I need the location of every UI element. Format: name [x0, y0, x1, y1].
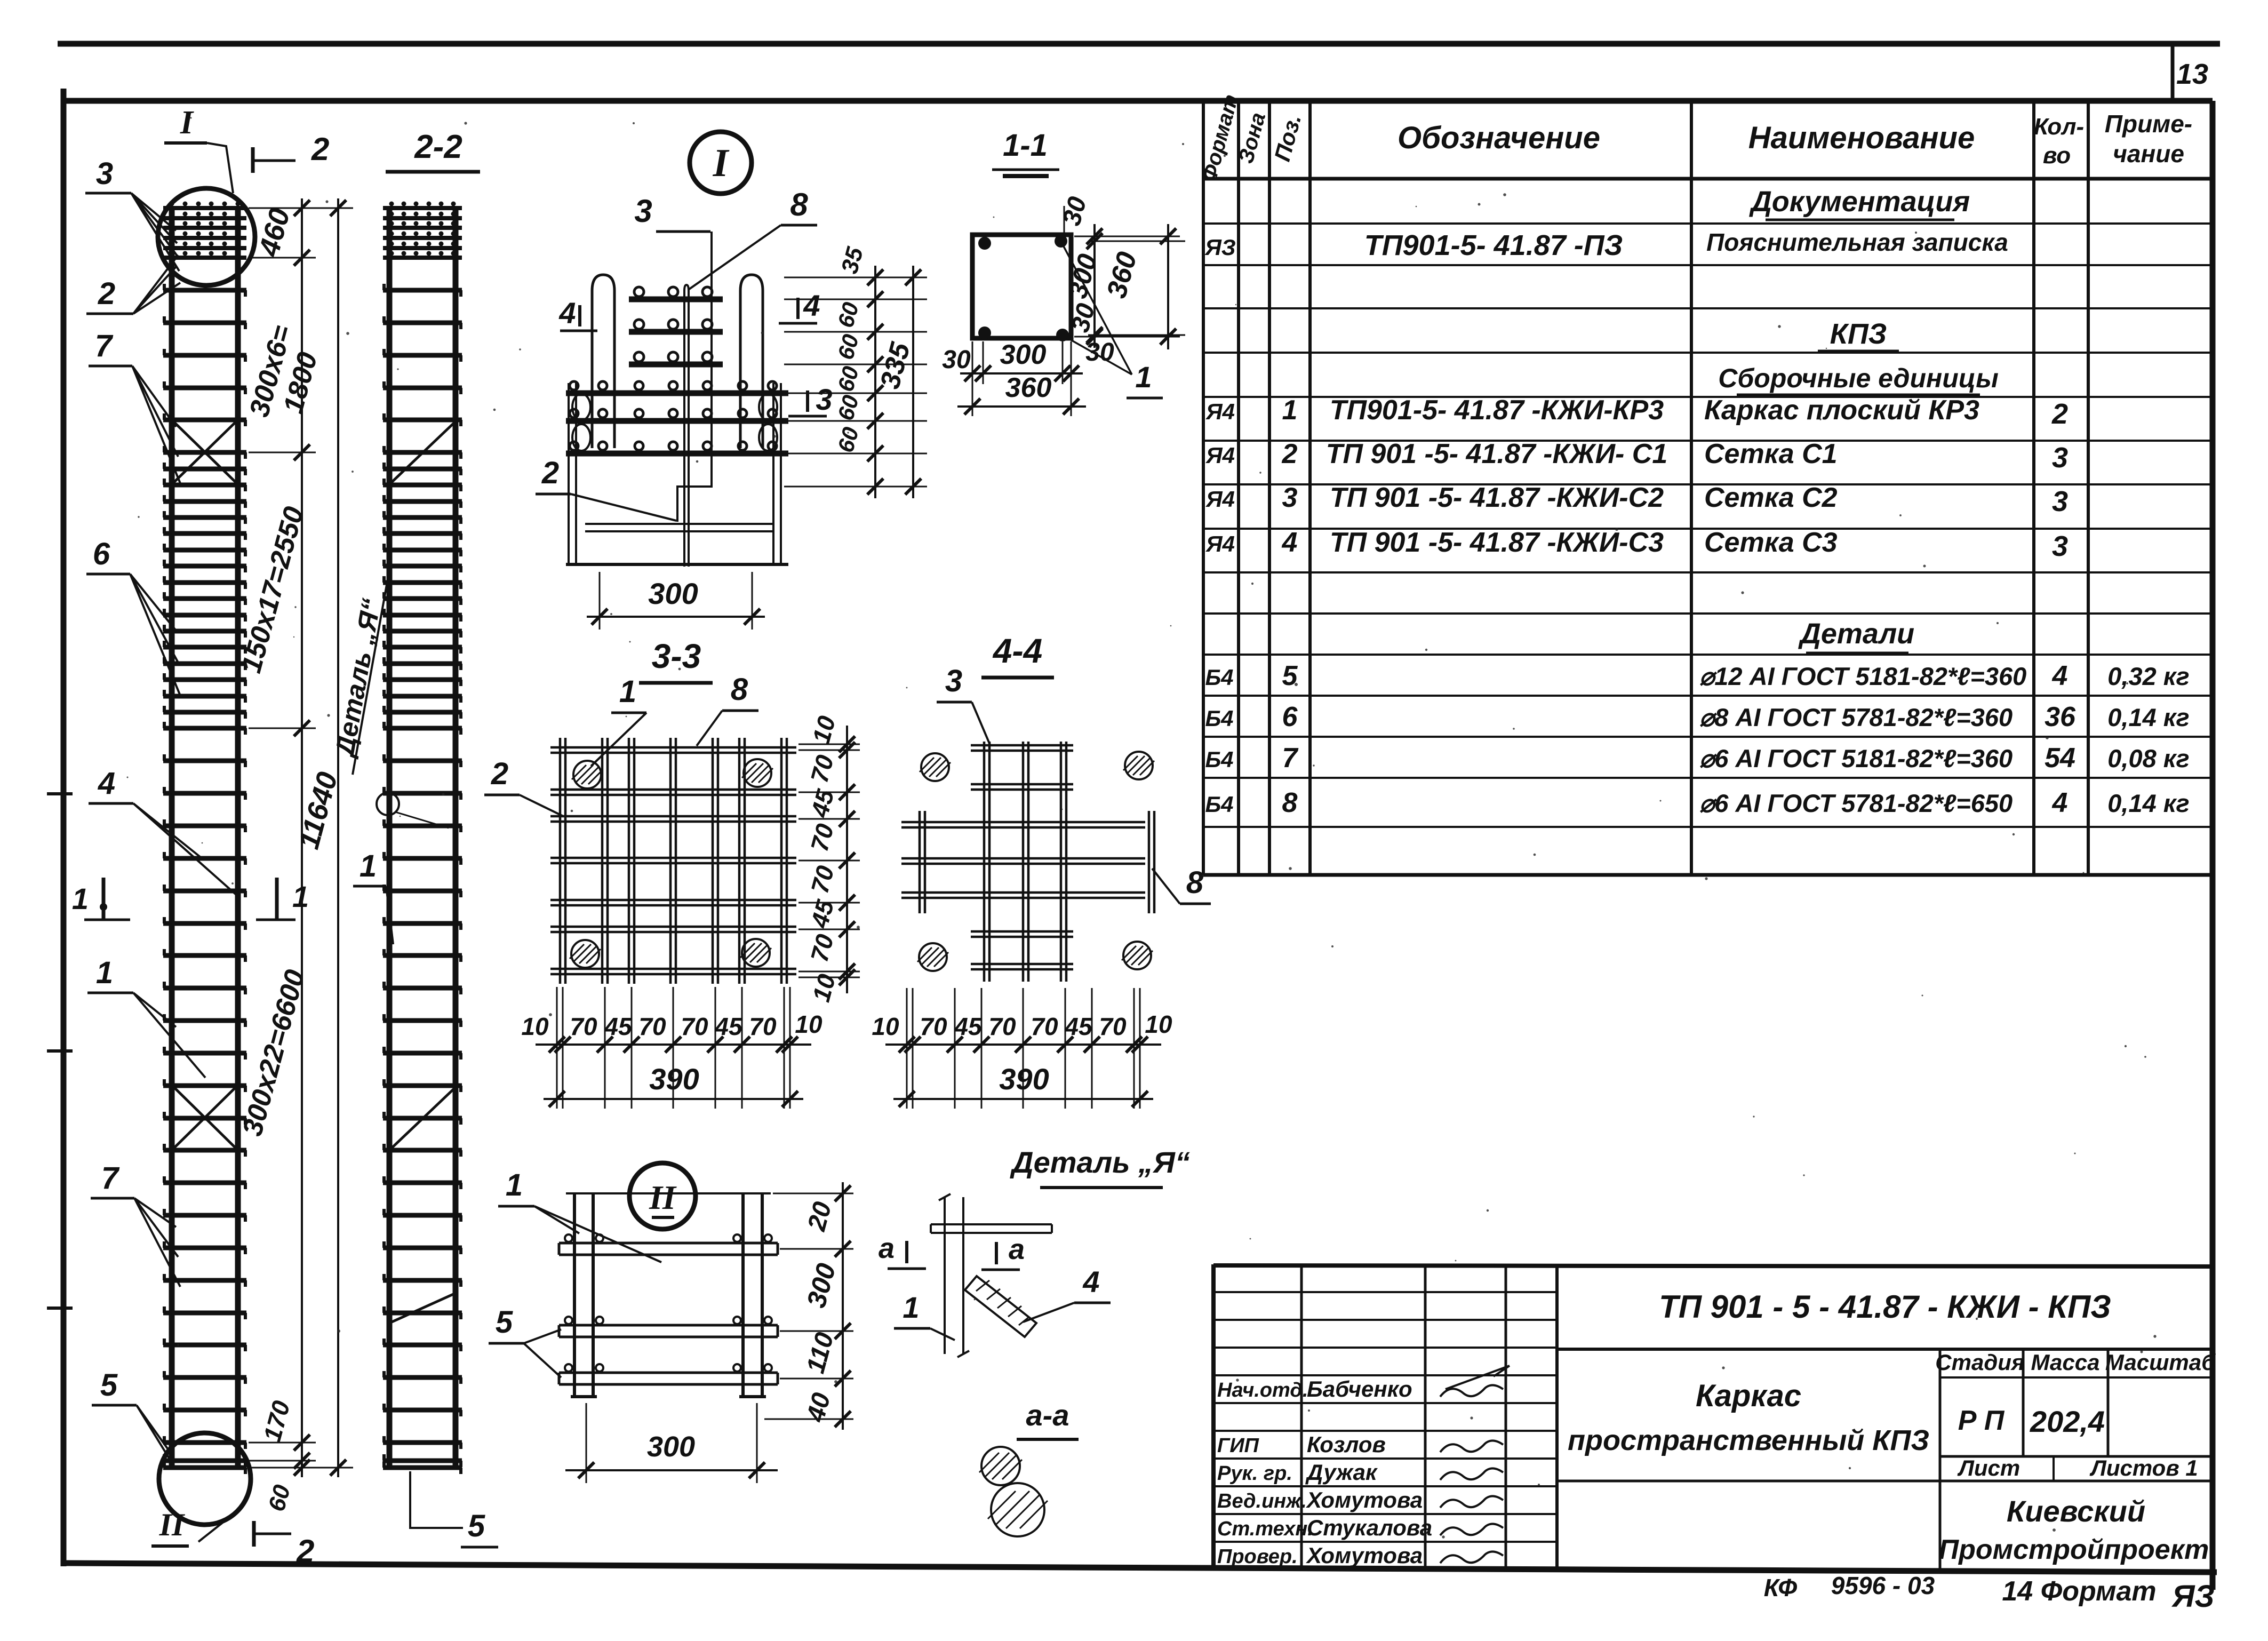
svg-text:2: 2: [541, 456, 559, 490]
svg-text:5: 5: [468, 1509, 485, 1543]
svg-text:во: во: [2043, 142, 2071, 169]
section mark 2 top: [251, 147, 255, 173]
svg-text:5: 5: [100, 1368, 118, 1403]
svg-text:Вед.инж.: Вед.инж.: [1217, 1490, 1307, 1512]
sheet top rule: [58, 41, 2220, 47]
detail I circle title: [690, 132, 752, 194]
svg-text:45: 45: [954, 1013, 983, 1040]
svg-text:300: 300: [1000, 339, 1047, 370]
svg-text:7: 7: [95, 329, 114, 363]
svg-text:14 Формат: 14 Формат: [2002, 1576, 2156, 1607]
view 3-3 grid vertical bars: [560, 738, 787, 984]
svg-text:70: 70: [681, 1013, 708, 1040]
svg-text:Б4: Б4: [1205, 706, 1233, 731]
svg-text:4: 4: [558, 296, 576, 330]
view 1-1 square: [972, 235, 1071, 338]
cage KP3 front view rails: [169, 206, 175, 1470]
view 3-3 corner bar sections (hatched): [573, 761, 601, 788]
svg-text:7: 7: [101, 1161, 120, 1196]
svg-text:II: II: [649, 1178, 677, 1216]
cage KP3 front view dense mesh zone (460): [163, 208, 246, 258]
label 5 under cage 2: [410, 1471, 463, 1528]
svg-text:Б4: Б4: [1205, 665, 1233, 690]
svg-text:4: 4: [98, 766, 115, 801]
svg-text:30: 30: [1085, 338, 1114, 367]
svg-text:а: а: [879, 1232, 895, 1264]
svg-text:Козлов: Козлов: [1307, 1432, 1386, 1457]
svg-text:45: 45: [1064, 1013, 1093, 1040]
svg-text:а: а: [1009, 1233, 1025, 1265]
svg-text:Бабченко: Бабченко: [1307, 1376, 1412, 1401]
svg-text:Приме-: Приме-: [2105, 110, 2192, 138]
svg-text:2: 2: [296, 1533, 314, 1569]
svg-text:Я4: Я4: [1205, 487, 1235, 512]
svg-text:8: 8: [1186, 865, 1204, 900]
svg-text:70: 70: [749, 1013, 777, 1040]
svg-text:Сетка С2: Сетка С2: [1704, 482, 1838, 513]
title block left table verticals: [1301, 1265, 1557, 1567]
detail I: 300 dim bottom: [599, 572, 601, 630]
svg-text:2: 2: [2051, 398, 2068, 430]
cage section 2-2 rungs: [383, 290, 462, 1468]
svg-text:Каркас плоский КР3: Каркас плоский КР3: [1704, 395, 1979, 426]
section a-a bar circles: [981, 1447, 1020, 1485]
view 3-3 bottom dims: [557, 987, 790, 1109]
svg-text:1: 1: [619, 674, 636, 709]
svg-text:3: 3: [1282, 482, 1298, 513]
svg-text:Каркас: Каркас: [1696, 1379, 1801, 1413]
svg-text:Я4: Я4: [1205, 399, 1235, 424]
svg-text:Наименование: Наименование: [1748, 121, 1975, 155]
svg-text:а-а: а-а: [1026, 1398, 1069, 1432]
svg-text:Я4: Я4: [1205, 443, 1235, 468]
svg-text:Хомутова: Хомутова: [1306, 1487, 1423, 1512]
svg-text:1: 1: [360, 849, 377, 883]
svg-text:70: 70: [920, 1013, 947, 1040]
view 1-1 label 1 leaders: [1063, 244, 1132, 375]
svg-text:пространственный КПЗ: пространственный КПЗ: [1568, 1424, 1929, 1456]
cage 2 diagonal braces: [389, 421, 456, 484]
view 1-1 right dims: [1064, 206, 1185, 337]
svg-text:Лист: Лист: [1957, 1455, 2020, 1480]
svg-text:5: 5: [1282, 660, 1298, 691]
svg-text:54: 54: [2045, 743, 2075, 774]
svg-text:КПЗ: КПЗ: [1830, 318, 1887, 350]
svg-text:0,14 кг: 0,14 кг: [2107, 789, 2189, 817]
svg-text:2-2: 2-2: [414, 129, 462, 165]
view 3-3 right dims: [798, 744, 860, 977]
svg-text:Деталь „Я“: Деталь „Я“: [1010, 1145, 1190, 1179]
detail Ya diagonal bar 4 (hatched): [965, 1276, 1036, 1337]
detail I: outer vertical bars: [568, 383, 570, 564]
cage overall dim chain 11640: [337, 198, 339, 1477]
svg-text:0,32 кг: 0,32 кг: [2107, 662, 2189, 690]
svg-text:ТП 901 -5- 41.87 -КЖИ-С2: ТП 901 -5- 41.87 -КЖИ-С2: [1330, 482, 1664, 513]
svg-text:390: 390: [999, 1062, 1049, 1096]
detail circle II title: [629, 1163, 696, 1229]
svg-text:4-4: 4-4: [992, 632, 1043, 670]
svg-text:ТП 901 - 5 - 41.87 - КЖИ - КПЗ: ТП 901 - 5 - 41.87 - КЖИ - КПЗ: [1659, 1289, 2111, 1325]
svg-text:Обозначение: Обозначение: [1397, 121, 1600, 155]
svg-text:Листов 1: Листов 1: [2089, 1455, 2198, 1480]
view 4-4 corner bar sections (hatched): [921, 753, 949, 781]
svg-text:Стадия: Стадия: [1935, 1350, 2024, 1375]
detail I: right dim chain: [784, 277, 927, 487]
detail I: upper mesh bars: [629, 297, 723, 302]
svg-text:45: 45: [714, 1013, 743, 1040]
svg-text:202,4: 202,4: [2030, 1405, 2105, 1438]
svg-text:Ст.техн.: Ст.техн.: [1217, 1518, 1313, 1540]
svg-text:Стукалова: Стукалова: [1307, 1515, 1432, 1540]
svg-text:3: 3: [2052, 442, 2068, 474]
svg-text:ЯЗ: ЯЗ: [1204, 235, 1236, 260]
svg-text:36: 36: [2045, 702, 2076, 732]
svg-text:7: 7: [1282, 743, 1299, 774]
svg-text:5: 5: [496, 1305, 513, 1340]
svg-text:2: 2: [311, 131, 329, 167]
cage 1 cross braces: [172, 420, 238, 484]
svg-text:13: 13: [2176, 58, 2208, 90]
svg-text:Рук. гр.: Рук. гр.: [1217, 1462, 1292, 1485]
svg-text:2: 2: [98, 276, 115, 311]
detail I: left hook bar: [592, 275, 614, 448]
svg-text:I: I: [713, 141, 730, 185]
svg-text:4: 4: [2052, 787, 2068, 818]
svg-text:Промстройпроект: Промстройпроект: [1939, 1534, 2209, 1565]
cage KP3 front view rungs: [163, 290, 246, 1468]
view II horizontal bars: [559, 1242, 778, 1245]
svg-text:3: 3: [816, 383, 832, 416]
section mark 1 left: [102, 878, 106, 920]
svg-text:4: 4: [1082, 1265, 1099, 1299]
svg-text:1: 1: [96, 955, 113, 990]
svg-text:ТП901-5- 41.87 -КЖИ-КР3: ТП901-5- 41.87 -КЖИ-КР3: [1330, 395, 1664, 426]
detail I: hook loops: [572, 394, 590, 420]
cage section 2-2 rails: [387, 206, 393, 1470]
svg-text:Б4: Б4: [1205, 792, 1233, 817]
section mark 1 right: [275, 878, 279, 920]
detail circle I on cage 1: [158, 188, 255, 285]
svg-text:3: 3: [945, 664, 962, 698]
detail I: lower cage horizontal bars: [566, 391, 788, 396]
svg-text:6: 6: [93, 537, 110, 571]
svg-text:Документация: Документация: [1749, 186, 1970, 218]
svg-text:II: II: [159, 1507, 186, 1542]
page number box 13: [2171, 45, 2175, 103]
svg-text:9596 - 03: 9596 - 03: [1831, 1572, 1935, 1599]
svg-text:10: 10: [872, 1013, 899, 1040]
svg-text:КФ: КФ: [1764, 1574, 1798, 1602]
svg-text:ТП901-5- 41.87 -ПЗ: ТП901-5- 41.87 -ПЗ: [1364, 229, 1623, 261]
svg-text:Масштаб: Масштаб: [2105, 1350, 2216, 1375]
detail Ya horizontal bar: [931, 1224, 1052, 1233]
fold ticks on left frame: [47, 792, 73, 795]
svg-text:чание: чание: [2113, 140, 2184, 168]
drawing frame: [61, 98, 2213, 104]
svg-text:3-3: 3-3: [652, 637, 701, 675]
svg-text:ТП 901 -5- 41.87 -КЖИ- С1: ТП 901 -5- 41.87 -КЖИ- С1: [1326, 439, 1668, 469]
svg-text:0,14 кг: 0,14 кг: [2107, 703, 2189, 731]
svg-text:10: 10: [521, 1013, 549, 1040]
svg-text:390: 390: [649, 1062, 699, 1096]
svg-text:Масса: Масса: [2031, 1350, 2100, 1375]
svg-text:70: 70: [1031, 1013, 1058, 1040]
cage section 2-2 dense mesh zone (460): [383, 208, 462, 258]
svg-text:1: 1: [903, 1291, 919, 1324]
svg-text:Б4: Б4: [1205, 747, 1233, 772]
svg-text:0,08 кг: 0,08 кг: [2107, 744, 2189, 772]
svg-text:45: 45: [604, 1013, 633, 1040]
view 1-1 bottom dims: [972, 341, 1071, 416]
svg-text:1: 1: [1282, 395, 1298, 426]
detail circle II on cage 1: [159, 1433, 251, 1525]
cage dim chain extension lines: [249, 208, 353, 1468]
svg-text:8: 8: [790, 187, 808, 222]
svg-text:360: 360: [1005, 372, 1052, 403]
svg-text:2: 2: [1282, 439, 1298, 469]
title block stadia/massa/masshtab: [1939, 1349, 1942, 1570]
svg-text:ЯЗ: ЯЗ: [2171, 1579, 2215, 1614]
svg-text:Сборочные единицы: Сборочные единицы: [1718, 363, 1999, 393]
svg-text:Сетка С1: Сетка С1: [1704, 439, 1838, 469]
view 4-4 bottom dims: [907, 988, 1140, 1109]
svg-text:3: 3: [2052, 530, 2068, 562]
svg-text:ГИП: ГИП: [1217, 1435, 1259, 1457]
svg-text:1-1: 1-1: [1003, 128, 1048, 163]
svg-text:2: 2: [491, 756, 508, 791]
svg-text:⌀6 АI ГОСТ 5781-82*ℓ=650: ⌀6 АI ГОСТ 5781-82*ℓ=650: [1699, 789, 2013, 817]
detail Ya vertical bar: [939, 1194, 969, 1357]
view II bottom dim 300: [586, 1403, 757, 1483]
specification table grid: [1203, 101, 2088, 875]
svg-text:Р П: Р П: [1958, 1405, 2005, 1436]
scan speckles: [761, 332, 764, 334]
svg-text:Сетка С3: Сетка С3: [1704, 527, 1838, 558]
title block left table rows: [1213, 1292, 1557, 1542]
svg-text:1: 1: [72, 882, 89, 915]
detail I: lower frame lines: [585, 523, 772, 525]
svg-text:6: 6: [1282, 702, 1298, 732]
detail I: center vertical bar 8: [684, 285, 689, 567]
svg-text:4: 4: [803, 289, 820, 322]
svg-text:⌀8 АI ГОСТ 5781-82*ℓ=360: ⌀8 АI ГОСТ 5781-82*ℓ=360: [1699, 703, 2013, 731]
view 3-3 grid horizontal bars: [550, 747, 796, 974]
cage dim chain 460/300x6/150x17/300x22/170/60: [301, 198, 303, 1477]
svg-text:1: 1: [1135, 360, 1152, 394]
svg-text:Я4: Я4: [1205, 531, 1235, 556]
svg-text:70: 70: [1099, 1013, 1127, 1040]
svg-text:Дужак: Дужак: [1305, 1460, 1378, 1485]
svg-text:1: 1: [506, 1168, 523, 1202]
view 4-4 mesh bars: [901, 742, 1154, 982]
svg-text:70: 70: [638, 1013, 666, 1040]
svg-text:8: 8: [731, 672, 748, 707]
svg-text:Кол-: Кол-: [2034, 114, 2084, 140]
svg-text:Нач.отд.: Нач.отд.: [1217, 1379, 1308, 1401]
title block outer: [1211, 1264, 1216, 1568]
svg-text:Пояснительная записка: Пояснительная записка: [1706, 228, 2008, 256]
svg-text:10: 10: [795, 1010, 822, 1038]
view II right dims: [764, 1193, 853, 1419]
svg-text:300: 300: [648, 577, 698, 610]
svg-text:Хомутова: Хомутова: [1306, 1543, 1423, 1568]
svg-text:⌀6 АI ГОСТ 5181-82*ℓ=360: ⌀6 АI ГОСТ 5181-82*ℓ=360: [1699, 744, 2013, 772]
svg-text:1: 1: [292, 880, 309, 913]
svg-text:70: 70: [570, 1013, 597, 1040]
svg-text:3: 3: [2052, 485, 2068, 517]
svg-text:4: 4: [1282, 527, 1298, 558]
svg-text:Провер.: Провер.: [1217, 1546, 1298, 1568]
svg-text:3: 3: [634, 193, 652, 229]
svg-text:⌀12 АI ГОСТ 5181-82*ℓ=360: ⌀12 АI ГОСТ 5181-82*ℓ=360: [1699, 662, 2026, 690]
svg-text:ТП 901 -5- 41.87 -КЖИ-С3: ТП 901 -5- 41.87 -КЖИ-С3: [1330, 527, 1664, 558]
svg-text:8: 8: [1282, 787, 1298, 818]
svg-text:Киевский: Киевский: [2007, 1494, 2145, 1528]
svg-text:10: 10: [1145, 1010, 1172, 1038]
svg-text:4: 4: [2052, 660, 2068, 691]
svg-text:300: 300: [647, 1431, 695, 1463]
detail I: right hook bar: [740, 275, 763, 448]
view II top edge line: [566, 1192, 771, 1194]
svg-text:30: 30: [942, 346, 971, 374]
svg-text:3: 3: [96, 156, 113, 191]
svg-text:I: I: [180, 105, 194, 141]
view II vertical bars: [571, 1193, 766, 1397]
svg-text:70: 70: [988, 1013, 1016, 1040]
section mark 2 bottom: [252, 1521, 256, 1547]
svg-text:Детали: Детали: [1798, 618, 1914, 650]
